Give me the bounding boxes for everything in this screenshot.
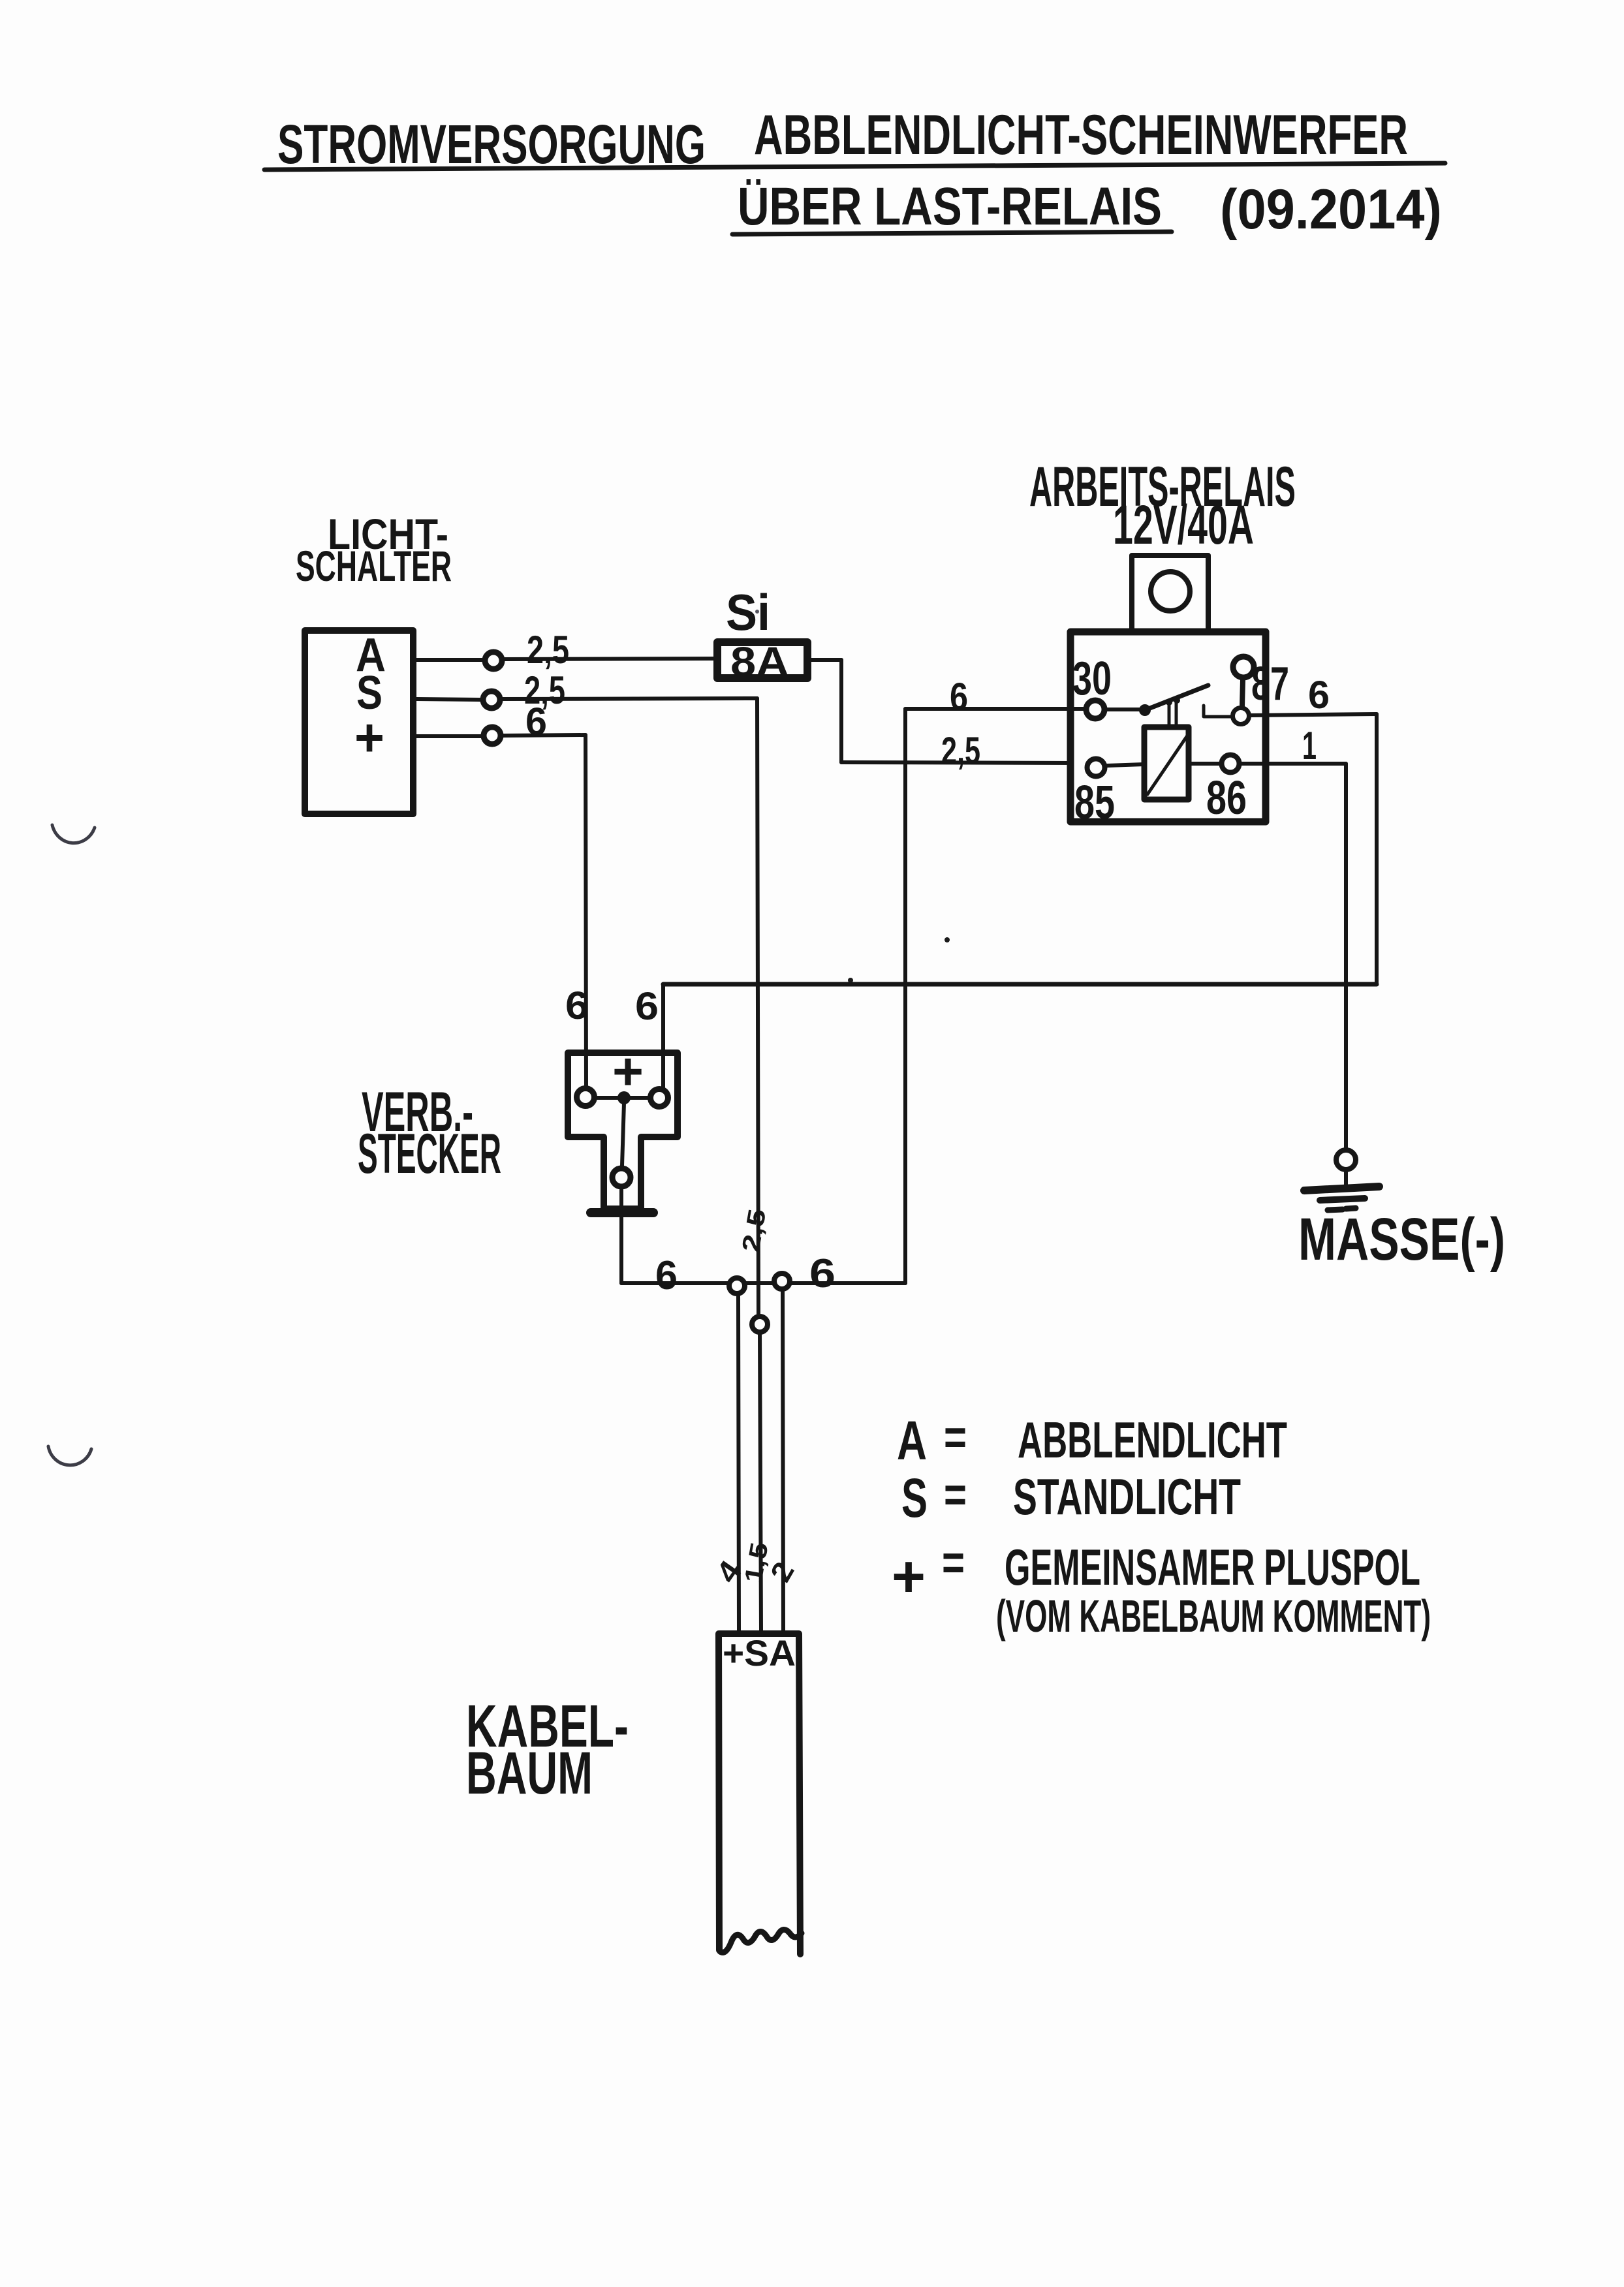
- wire 87 down: [1375, 714, 1379, 984]
- punch hole bottom: [48, 1446, 91, 1465]
- switch arm feed: [1107, 708, 1142, 711]
- relay mounting tab: [1132, 555, 1208, 629]
- title underline 2: [732, 232, 1172, 234]
- terminal 87 lower circle: [1233, 708, 1249, 724]
- wire 87 out: [1251, 714, 1377, 715]
- connector circle on S wire: [752, 1316, 768, 1332]
- svg-text:GEMEINSAMER PLUSPOL: GEMEINSAMER PLUSPOL: [1005, 1538, 1420, 1596]
- svg-text:ABBLENDLICHT: ABBLENDLICHT: [1018, 1411, 1287, 1469]
- connector plug bottom bar: [591, 1208, 653, 1217]
- connector pin link: [597, 1096, 648, 1100]
- svg-text:ÜBER LAST-RELAIS: ÜBER LAST-RELAIS: [738, 177, 1162, 236]
- svg-text:=: =: [944, 1467, 967, 1523]
- wire S vertical down: [757, 698, 758, 1316]
- junction connector circle right: [774, 1273, 790, 1289]
- svg-text:+: +: [612, 1042, 644, 1100]
- terminal 30 circle: [1086, 700, 1104, 719]
- ground ring terminal: [1336, 1150, 1356, 1170]
- wire fuse to corner: [811, 658, 841, 662]
- light switch box: [305, 630, 413, 814]
- svg-text:ABBLENDLICHT-SCHEINWERFER: ABBLENDLICHT-SCHEINWERFER: [754, 104, 1408, 166]
- svg-text:6: 6: [565, 984, 589, 1027]
- wire + horizontal: [503, 735, 586, 736]
- svg-text:6: 6: [635, 984, 659, 1028]
- svg-text:(09.2014): (09.2014): [1220, 178, 1442, 241]
- connector circle on wire +: [484, 727, 501, 744]
- switch arm pivot dot: [1139, 704, 1151, 716]
- relay box U1: [1070, 632, 1266, 822]
- svg-text:STECKER: STECKER: [358, 1123, 501, 1185]
- harness wire left: [738, 1294, 739, 1631]
- svg-text:+: +: [354, 708, 384, 768]
- wire A to fuse: [505, 659, 715, 659]
- junction connector circle left: [729, 1278, 745, 1294]
- svg-text:(VOM KABELBAUM KOMMENT): (VOM KABELBAUM KOMMENT): [996, 1591, 1431, 1641]
- junction bus wire: [621, 1281, 905, 1285]
- long bus wire 87 to plug: [663, 982, 1377, 987]
- svg-text:S: S: [901, 1467, 928, 1529]
- harness box: [719, 1634, 800, 1954]
- punch hole top: [52, 825, 95, 843]
- svg-text:2,5: 2,5: [941, 730, 980, 772]
- connector circle on wire S: [483, 691, 500, 708]
- wire A from switch: [416, 658, 482, 662]
- connector plug body: [568, 1053, 678, 1209]
- bus corner down to plug: [661, 984, 665, 1089]
- svg-text:30: 30: [1072, 653, 1112, 705]
- svg-text:6: 6: [525, 700, 547, 743]
- ink speck 2: [848, 978, 853, 983]
- ground wire stub: [1344, 1172, 1348, 1187]
- wire 86 out: [1241, 762, 1346, 766]
- ground bar 1: [1304, 1187, 1379, 1190]
- ground bar 2: [1320, 1198, 1365, 1200]
- harness wire right: [783, 1289, 783, 1631]
- harness wire middle: [760, 1332, 761, 1631]
- terminal 85 circle: [1087, 759, 1105, 777]
- coil diagonal: [1148, 736, 1187, 794]
- svg-text:=: =: [944, 1410, 967, 1465]
- svg-text:Si: Si: [726, 583, 770, 641]
- terminal 86 circle: [1222, 755, 1240, 773]
- svg-text:86: 86: [1206, 772, 1247, 824]
- wire 86 down to ground: [1344, 764, 1348, 1147]
- svg-text:6: 6: [655, 1253, 678, 1298]
- harness box torn edge: [720, 1929, 802, 1952]
- wire 30 feed vertical: [903, 709, 907, 1283]
- wire coil to 86: [1189, 762, 1220, 766]
- svg-text:STANDLICHT: STANDLICHT: [1013, 1468, 1241, 1525]
- svg-text:+: +: [892, 1544, 926, 1610]
- wire 30 feed horizontal: [905, 707, 1085, 711]
- switch arm: [1145, 685, 1208, 710]
- svg-text:6: 6: [950, 675, 968, 719]
- armature post 1: [1168, 704, 1171, 725]
- svg-text:2,5: 2,5: [738, 1207, 772, 1254]
- relay mounting hole: [1151, 572, 1190, 611]
- connector junction dot: [617, 1091, 631, 1104]
- title underline 1: [264, 163, 1445, 170]
- relay coil: [1144, 727, 1189, 800]
- fuse box: [717, 642, 807, 678]
- svg-text:6: 6: [1308, 673, 1330, 717]
- connector vertical link: [622, 1103, 624, 1166]
- svg-text:2,5: 2,5: [527, 628, 569, 672]
- wire S from switch: [416, 699, 480, 700]
- svg-text:BAUM: BAUM: [466, 1740, 593, 1807]
- connector circle on wire A: [485, 652, 502, 669]
- wire fuse down: [839, 660, 843, 762]
- svg-text:+SA: +SA: [723, 1632, 796, 1673]
- svg-text:1: 1: [1302, 724, 1317, 768]
- ink speck 3: [755, 610, 759, 614]
- connector right pin: [651, 1089, 668, 1107]
- ground bar 3: [1328, 1209, 1343, 1210]
- wire S horizontal to corner: [503, 698, 757, 699]
- svg-text:6: 6: [809, 1251, 835, 1296]
- connector stem pin: [612, 1168, 631, 1187]
- svg-text:87: 87: [1251, 658, 1289, 710]
- wire plug to junction: [619, 1190, 623, 1283]
- svg-text:MASSE(-): MASSE(-): [1298, 1206, 1505, 1273]
- svg-text:12V/40A: 12V/40A: [1113, 494, 1254, 555]
- terminal 87 link: [1242, 680, 1243, 706]
- terminal 87 upper circle: [1233, 657, 1254, 677]
- connector left pin: [577, 1089, 595, 1106]
- svg-text:=: =: [942, 1535, 965, 1591]
- svg-text:SCHALTER: SCHALTER: [296, 542, 452, 590]
- contact hook: [1204, 706, 1231, 717]
- svg-text:8A: 8A: [730, 638, 789, 685]
- svg-text:A: A: [897, 1410, 927, 1471]
- wire 85 to coil: [1107, 764, 1144, 766]
- ground bar 3b: [1346, 1208, 1356, 1209]
- wire fuse to relay 85: [841, 762, 1085, 763]
- svg-text:85: 85: [1074, 777, 1115, 829]
- armature post 2: [1175, 702, 1178, 725]
- wire + vertical down to plug: [586, 735, 586, 1088]
- wire + from switch: [416, 734, 481, 738]
- ink speck 1: [945, 937, 950, 942]
